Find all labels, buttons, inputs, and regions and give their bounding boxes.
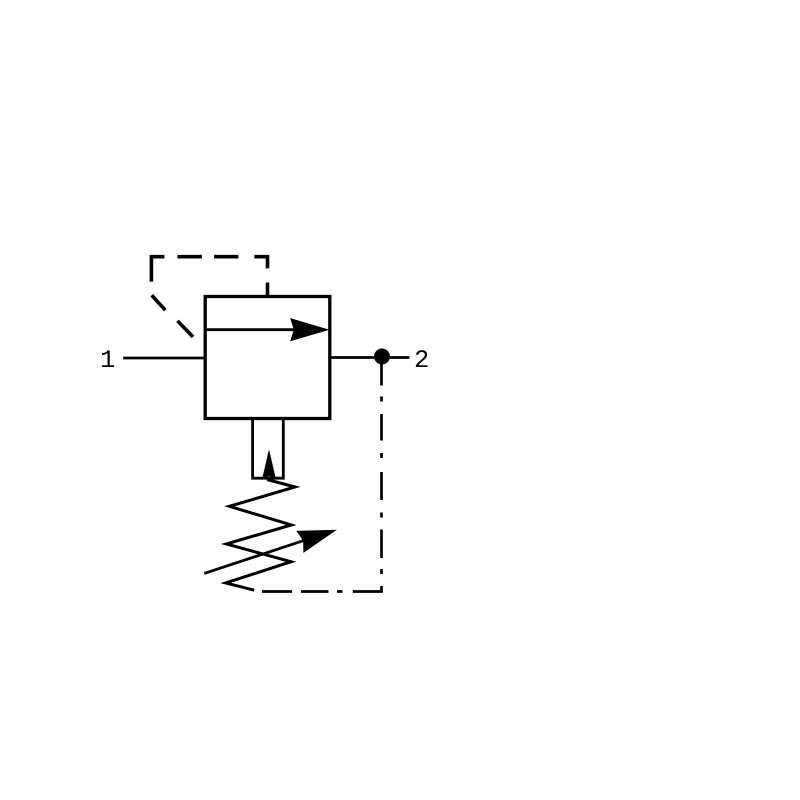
adjustment arrowhead xyxy=(296,519,340,553)
flow path arrow line xyxy=(205,328,296,331)
pilot dash-dot vertical: dash 4 xyxy=(380,530,383,559)
label 2 xyxy=(416,350,428,367)
pilot dashed diagonal segment 1 xyxy=(152,295,166,310)
pilot dash-dot horizontal: dot xyxy=(337,590,343,593)
adjustment arrow tail xyxy=(204,541,303,574)
pilot dashed corner top-right xyxy=(254,257,267,269)
pilot dash-dot horizontal: dash 3 xyxy=(262,590,292,593)
valve body square xyxy=(205,297,330,419)
pilot dash-dot vertical: dash 3 xyxy=(380,472,383,500)
pilot dash-dot vertical: dot 3 xyxy=(380,513,383,518)
pilot dash-dot vertical: dot 1 xyxy=(380,397,383,402)
valve stem channel xyxy=(253,419,284,479)
port 2 wire xyxy=(330,356,410,359)
stem arrowhead (spring end) xyxy=(262,449,276,478)
junction node xyxy=(374,349,390,365)
pilot dash-dot corner bottom-right xyxy=(353,586,382,592)
pilot dash-dot vertical: dash 2 xyxy=(380,414,383,441)
flow path arrowhead xyxy=(290,318,329,341)
pilot dashed diagonal segment 2 xyxy=(178,321,194,337)
pilot dash-dot vertical: dot 2 xyxy=(380,453,383,458)
label 1 xyxy=(102,350,114,367)
port 1 wire xyxy=(123,357,205,360)
pilot dash-dot vertical: top segment xyxy=(380,357,383,386)
pilot dashed segment top 3 xyxy=(214,255,238,259)
pilot dash-dot vertical: dot 4 xyxy=(380,569,383,574)
pilot dashed segment to valve top xyxy=(266,283,270,297)
pilot dashed corner top-left xyxy=(151,257,164,282)
pilot dashed segment top 2 xyxy=(178,255,202,259)
spring xyxy=(226,480,295,591)
pilot dash-dot horizontal: dash 2 xyxy=(301,590,329,593)
